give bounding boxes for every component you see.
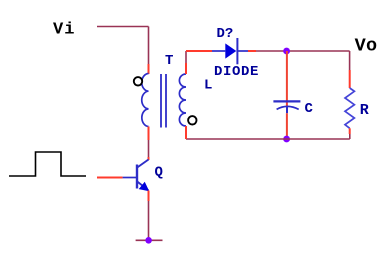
svg-text:Vi: Vi (53, 21, 75, 40)
wire red stub below secondary winding (185, 126, 187, 139)
svg-text:Q: Q (155, 165, 163, 181)
wire bottom rail (186, 138, 350, 140)
svg-text:R: R (360, 102, 369, 119)
capacitor C stem (286, 106, 288, 113)
svg-text:Vo: Vo (355, 36, 378, 57)
transformer T core (161, 74, 166, 128)
phase dot primary (top-left) (134, 77, 142, 85)
transistor Q1 collector stroke (137, 160, 148, 168)
transistor Q1 emitter stroke (137, 182, 148, 191)
wire top rail left of diode (red) (186, 50, 212, 52)
wire emitter to ground (148, 201, 150, 240)
capacitor C top plate (273, 100, 300, 102)
diode D? anode lead (212, 50, 225, 52)
phase dot secondary (bottom-right) (188, 116, 196, 124)
wire red stub to resistor top (349, 70, 351, 88)
wire base (red) (97, 177, 123, 179)
wire top rail to output corner (256, 50, 350, 52)
wire primary bottom to collector (148, 140, 150, 157)
svg-text:C: C (305, 101, 314, 117)
wire Vi horizontal (97, 26, 149, 28)
transistor Q1 base lead (123, 177, 137, 179)
transistor Q1 emitter arrowhead (140, 183, 148, 191)
svg-text:L: L (204, 78, 212, 94)
resistor R zigzag (345, 88, 354, 128)
ground rail (136, 239, 163, 241)
svg-text:DIODE: DIODE (214, 64, 259, 80)
square wave drive symbol (9, 152, 86, 176)
wire bottom-left corner vertical (185, 126, 187, 139)
svg-text:T: T (165, 53, 173, 69)
diode D? cathode lead (237, 50, 248, 52)
wire red stub to primary winding (148, 64, 150, 74)
wire red stub to secondary winding top (185, 63, 187, 74)
wire red stub right of diode (248, 50, 256, 52)
svg-text:D?: D? (217, 26, 234, 42)
wire red stub to collector (148, 157, 150, 160)
wire red stub below primary winding (148, 127, 150, 141)
ground junction dot (145, 237, 152, 244)
wire emitter red stub (148, 191, 150, 202)
wire resistor branch lower (349, 134, 351, 139)
wire secondary top vertical (185, 51, 187, 63)
transformer T secondary winding (L) (179, 74, 186, 126)
junction dot top (cap branch) (283, 48, 290, 55)
transistor Q1 base bar (136, 165, 138, 189)
wire capacitor branch lower (red) (286, 113, 288, 139)
wire primary top vertical (148, 27, 150, 65)
wire resistor branch upper (349, 51, 351, 70)
diode D? triangle (225, 43, 236, 58)
diode D? cathode bar (236, 38, 238, 64)
transformer T primary winding (142, 74, 149, 127)
wire capacitor branch upper (red) (286, 51, 288, 106)
capacitor C curved plate (277, 106, 299, 109)
wire red stub below resistor (349, 128, 351, 134)
junction dot bottom (cap branch) (283, 136, 290, 143)
